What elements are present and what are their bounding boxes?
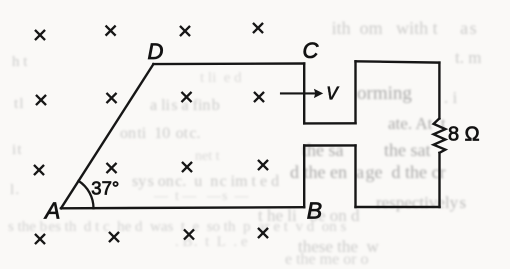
field cross x r2c1: [37, 96, 45, 104]
wire notch2 up: [354, 145, 356, 207]
svg-text:D: D: [148, 39, 164, 64]
wire notch1 bottom: [304, 122, 355, 124]
svg-text:v: v: [326, 79, 340, 106]
wire right lower (from resistor): [438, 153, 440, 207]
wire notch1 up: [354, 61, 356, 123]
field cross x r1c4: [254, 24, 262, 32]
wire C down: [303, 64, 305, 124]
wire bottom right: [356, 206, 440, 208]
wire DC top: [153, 62, 304, 65]
field cross x r2c3: [182, 93, 190, 101]
field cross x r4c4: [259, 229, 267, 237]
svg-text:B: B: [307, 198, 322, 224]
field cross x r2c4: [255, 93, 263, 101]
wire right upper (to resistor): [438, 63, 440, 119]
wire top right: [356, 61, 440, 62]
field cross x r3c4: [259, 161, 267, 169]
field cross x r1c3: [181, 27, 189, 35]
wire B up: [303, 146, 305, 208]
wire AB bottom: [61, 207, 304, 208]
wire AD slant: [61, 64, 153, 208]
field cross x r4c3: [185, 230, 193, 238]
velocity arrow head: [314, 89, 323, 98]
ghost bleed-through text layer: [328, 18, 477, 39]
velocity arrow shaft: [281, 92, 316, 94]
field cross x r3c1: [35, 166, 43, 174]
svg-text:C: C: [303, 38, 319, 63]
field cross x r1c2: [106, 26, 114, 34]
field cross x r1c1: [36, 31, 44, 39]
svg-text:8 Ω: 8 Ω: [448, 124, 480, 146]
field cross x r4c2: [110, 233, 118, 241]
field cross x r3c2: [107, 164, 115, 172]
field cross x r4c1: [36, 235, 44, 243]
svg-text:A: A: [43, 198, 60, 224]
resistor R 8ohm zigzag: [434, 119, 446, 153]
svg-text:37°: 37°: [91, 177, 119, 198]
field cross x r3c3: [183, 163, 191, 171]
field cross x r2c2: [107, 94, 115, 102]
angle arc at A: [79, 181, 94, 208]
wire notch2 top: [304, 144, 355, 147]
